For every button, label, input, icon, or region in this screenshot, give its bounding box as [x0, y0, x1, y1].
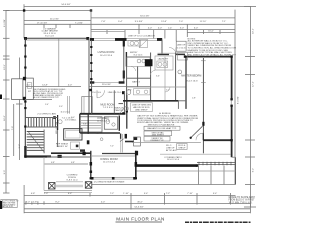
svg-text:ENTRY: ENTRY	[130, 52, 138, 54]
garage top wall post left	[24, 37, 27, 40]
powder room box	[104, 117, 117, 129]
svg-text:5'-4": 5'-4"	[144, 193, 149, 195]
pantry divider	[113, 90, 115, 113]
hall door arc	[165, 87, 170, 92]
left exterior wall upper	[24, 38, 26, 80]
svg-text:45'-0": 45'-0"	[137, 201, 143, 203]
bath3 vanity	[134, 89, 151, 95]
bath2-bath3 divider wall	[137, 67, 139, 87]
master bedroom label	[181, 75, 201, 83]
svg-text:3'-0": 3'-0"	[59, 106, 63, 108]
garage interior dim line	[26, 84, 151, 86]
rear wall (great room back)	[136, 164, 197, 167]
living room left wall	[90, 40, 92, 84]
entry roof line	[91, 31, 125, 33]
hall wall right vertical	[185, 57, 187, 109]
svg-text:5'-4": 5'-4"	[118, 21, 123, 23]
rod and shelf note box	[177, 144, 187, 150]
stairs lower run horizontal treads	[27, 132, 44, 151]
svg-text:3/A5 SHEET: 3/A5 SHEET	[152, 133, 165, 136]
garage label	[41, 27, 57, 37]
pantry left wall	[79, 114, 81, 133]
left wall heavy segment (fireplace wall)	[24, 146, 26, 157]
hall line under notes	[132, 142, 201, 144]
svg-text:2'-8": 2'-8"	[33, 201, 38, 203]
svg-text:2'-0": 2'-0"	[71, 117, 75, 119]
svg-text:LINE OF 10'-0 CLG ABOVE: LINE OF 10'-0 CLG ABOVE	[128, 35, 156, 38]
top dimension line overall	[24, 4, 251, 38]
copyright smudge line	[185, 221, 251, 223]
bath3 bottom wall heavy	[123, 100, 178, 102]
kitchen cabinet wall	[126, 95, 128, 129]
svg-text:4'-8": 4'-8"	[31, 193, 36, 195]
svg-text:8'-0 CLG: 8'-0 CLG	[45, 36, 54, 38]
svg-text:2'-6 OPEN TO ABV: 2'-6 OPEN TO ABV	[37, 113, 56, 116]
bath3 bottom wall light continuation	[178, 100, 186, 102]
svg-text:9'-2": 9'-2"	[253, 168, 255, 173]
svg-text:7'-0": 7'-0"	[179, 21, 184, 23]
kitchen label	[97, 117, 110, 123]
svg-text:VERIFY SZ: VERIFY SZ	[56, 146, 68, 148]
svg-text:7'-9": 7'-9"	[12, 126, 14, 131]
shelves note box	[131, 103, 153, 112]
pantry bottom wall	[80, 132, 120, 134]
top wall master-hall	[158, 48, 186, 55]
laundry room box	[155, 56, 173, 70]
patio top edge with hatches	[197, 162, 236, 165]
svg-text:7'-10": 7'-10"	[187, 193, 193, 195]
patio bottom edge	[92, 184, 236, 186]
fireplace bump-out left	[12, 77, 34, 100]
right dimension line inner	[234, 10, 236, 185]
toilet circle small	[100, 138, 103, 141]
right dimension line outer	[244, 6, 256, 207]
bath2 tub	[126, 67, 128, 96]
entry closet box	[139, 40, 147, 48]
svg-text:LINE OF: LINE OF	[177, 45, 186, 47]
center notes block	[137, 112, 199, 126]
boxed label 3 below notes	[144, 136, 170, 141]
master west wall	[201, 58, 206, 153]
svg-text:PANTRY: PANTRY	[115, 109, 124, 112]
svg-text:BATH 3: BATH 3	[132, 81, 140, 84]
title underline	[116, 221, 163, 223]
svg-text:19'-1": 19'-1"	[253, 28, 255, 34]
stair right wall	[57, 115, 59, 130]
hall line	[127, 78, 186, 87]
powder right wall	[118, 116, 120, 131]
svg-text:24'-0 3/4": 24'-0 3/4"	[50, 18, 59, 20]
pantry room box with shelves	[80, 117, 102, 132]
nook right wall	[135, 151, 137, 179]
top dim small labels row	[148, 28, 199, 30]
living room bottom line	[90, 81, 124, 83]
master top wall	[185, 56, 232, 58]
svg-text:54'-6 3/4": 54'-6 3/4"	[61, 4, 70, 6]
svg-text:6'-4": 6'-4"	[68, 193, 73, 195]
porch back wall line	[47, 156, 91, 158]
covered porch label	[66, 175, 78, 182]
left rotated dim labels	[4, 19, 6, 174]
dining room label	[100, 158, 117, 164]
svg-text:4'-0": 4'-0"	[26, 85, 31, 87]
door swing diagonal	[190, 126, 203, 139]
patio line under master	[160, 153, 231, 155]
svg-text:LAUNDRY: LAUNDRY	[158, 58, 169, 61]
bath2 left wall	[125, 52, 127, 67]
mud room bottom wall	[80, 113, 126, 115]
kitchen counter verticals	[121, 134, 123, 153]
left exterior wall lower	[24, 99, 26, 157]
svg-text:13'-8": 13'-8"	[161, 21, 167, 23]
top dimension line second level	[6, 10, 91, 12]
nook left wall	[90, 151, 92, 179]
stairs	[28, 118, 55, 128]
bottom dim tick verticals	[90, 193, 250, 213]
stair arrow	[29, 132, 44, 152]
porch left edge	[43, 157, 45, 191]
svg-text:8'-0 CLG: 8'-0 CLG	[134, 55, 143, 57]
svg-text:LIVING ROOM: LIVING ROOM	[98, 51, 115, 54]
nook bottom wall with windows	[91, 177, 136, 180]
svg-text:5'-0 CLG: 5'-0 CLG	[177, 47, 186, 49]
laundry door arc	[151, 71, 156, 76]
window marks on left wall	[24, 45, 26, 80]
svg-text:SHELF: SHELF	[178, 147, 186, 149]
living room right wall	[123, 40, 125, 82]
svg-text:16'-0 X 10'-0: 16'-0 X 10'-0	[167, 159, 180, 161]
left inner dim lines	[3, 58, 23, 161]
kitchen corner post	[125, 134, 127, 139]
pantry label	[114, 107, 123, 113]
svg-text:9'-0 3/4": 9'-0 3/4"	[135, 21, 143, 23]
mud door arc	[97, 90, 105, 98]
svg-text:11'-0 X 14'-0: 11'-0 X 14'-0	[103, 161, 116, 163]
right rotated dim labels	[238, 28, 255, 172]
wic note lines	[166, 145, 178, 152]
bottom dim line row B	[24, 201, 250, 203]
svg-text:9'-1 3/4": 9'-1 3/4"	[4, 19, 6, 27]
scattered small dim labels	[45, 75, 196, 147]
bath2 right wall	[150, 53, 152, 101]
svg-text:AND SHELF: AND SHELF	[135, 108, 148, 111]
svg-text:6'-8 X 12'-0: 6'-8 X 12'-0	[66, 179, 78, 181]
stair lower rail	[43, 130, 45, 154]
svg-text:11'-10": 11'-10"	[200, 21, 207, 23]
svg-text:1'-10": 1'-10"	[123, 193, 129, 195]
svg-text:54'-6 3/4": 54'-6 3/4"	[134, 207, 143, 209]
bottom-left note box	[1, 200, 19, 209]
svg-text:11'-8 x 6'-0: 11'-8 x 6'-0	[60, 111, 69, 113]
svg-text:OWNER TYP.: OWNER TYP.	[150, 140, 164, 142]
mud closet box	[82, 97, 92, 114]
fridge blob	[134, 137, 141, 146]
svg-text:AND SHEET A-6 FOR DETAILS. ALL: AND SHEET A-6 FOR DETAILS. ALL HDWR TYP.	[188, 53, 237, 56]
svg-text:3'-6": 3'-6"	[156, 75, 160, 77]
patio column lines	[199, 166, 225, 185]
svg-text:7'-2 X 6'-0: 7'-2 X 6'-0	[103, 107, 114, 109]
stair rails	[25, 118, 57, 128]
hall wall top of bath	[127, 56, 150, 58]
overhang line	[136, 170, 236, 172]
svg-text:2'-0": 2'-0"	[44, 193, 49, 195]
svg-text:9'-0": 9'-0"	[4, 170, 6, 175]
svg-text:13'-5": 13'-5"	[4, 64, 6, 70]
bottom dim line row C	[24, 207, 250, 209]
svg-text:54'-6 3/4": 54'-6 3/4"	[140, 15, 149, 17]
svg-text:8'-0 3/4": 8'-0 3/4"	[238, 96, 240, 104]
garage top wall post right	[86, 37, 89, 40]
mud left wall	[87, 114, 89, 134]
svg-text:13'-0 X 16'-8: 13'-0 X 16'-8	[185, 81, 198, 83]
svg-text:9'-8": 9'-8"	[83, 123, 87, 125]
porch post right	[85, 182, 92, 189]
svg-text:4'-0": 4'-0"	[68, 85, 73, 87]
ref appliance box	[71, 142, 80, 149]
svg-text:9'-0 CLG: 9'-0 CLG	[92, 92, 101, 94]
dining top opening line	[92, 155, 135, 157]
svg-text:7'-1": 7'-1"	[222, 21, 227, 23]
svg-text:2'-8": 2'-8"	[192, 97, 196, 99]
svg-text:4'-6": 4'-6"	[128, 89, 132, 91]
svg-text:7'-2": 7'-2"	[166, 193, 171, 195]
svg-text:11'-8 X 13'-4: 11'-8 X 13'-4	[97, 120, 110, 122]
top dimension line row 4	[24, 23, 235, 25]
kitchen door diagonal	[120, 139, 124, 142]
svg-text:16R @ 7 3/4: 16R @ 7 3/4	[56, 121, 58, 134]
svg-text:5'-4": 5'-4"	[213, 193, 218, 195]
front wall living room with posts	[90, 38, 162, 41]
svg-text:DINING ROOM: DINING ROOM	[100, 158, 117, 161]
boxed label 2 below notes	[144, 131, 172, 136]
right wall window	[230, 98, 232, 107]
boxed label 1 below notes	[144, 126, 180, 130]
svg-text:16'-0": 16'-0"	[208, 31, 214, 33]
bath3 toilet	[127, 89, 131, 94]
svg-text:FROM BLDG 6" IN FIRST: FROM BLDG 6" IN FIRST	[229, 200, 256, 202]
corner square marker left	[23, 9, 25, 11]
wc room	[119, 104, 129, 114]
dim line 16-0 above notes	[187, 31, 235, 33]
svg-text:1'-6": 1'-6"	[96, 133, 100, 135]
bottom dim line row A	[24, 193, 235, 195]
kitchen island	[64, 129, 82, 140]
svg-text:7'-2": 7'-2"	[110, 193, 115, 195]
junction squares	[24, 55, 233, 179]
left wall lower window marks	[24, 101, 26, 128]
kitchen counter bar	[102, 153, 135, 155]
svg-text:5'-4": 5'-4"	[45, 104, 49, 106]
niche circle	[178, 70, 182, 74]
garage right wall	[88, 38, 90, 114]
svg-text:GRADE TO SLOPE AWAY: GRADE TO SLOPE AWAY	[229, 196, 256, 199]
master door arc	[196, 133, 203, 140]
washer dryer circles	[157, 61, 168, 67]
bottom dim left end vertical	[23, 185, 25, 213]
hall divider	[164, 57, 166, 101]
top dimension line garage level	[24, 18, 91, 20]
top dimension line right wing	[91, 15, 235, 18]
left margin black bar upper	[0, 95, 2, 100]
corner post kitchen	[87, 140, 90, 144]
svg-text:5'-2": 5'-2"	[19, 144, 21, 149]
svg-text:4'-0": 4'-0"	[101, 201, 106, 203]
fan circle	[58, 120, 62, 124]
wic box	[175, 53, 177, 102]
left margin black bar lower	[0, 201, 2, 209]
garage divider wall	[58, 39, 60, 87]
svg-text:7'-8": 7'-8"	[101, 21, 106, 23]
svg-text:16'-0": 16'-0"	[4, 115, 6, 121]
svg-text:ALL W/ OWNER PRIOR TYP.: ALL W/ OWNER PRIOR TYP.	[34, 96, 60, 99]
master closet wall	[202, 133, 204, 140]
front wall left portion	[25, 155, 52, 157]
patio right edge	[232, 157, 236, 184]
bath2 label	[127, 57, 150, 67]
bottom dim small ticks	[26, 201, 44, 204]
svg-text:14'-8": 14'-8"	[42, 85, 48, 87]
top dimension ticks	[44, 9, 220, 41]
bath2 door arc	[131, 67, 136, 72]
great room label	[98, 51, 115, 57]
top dimension line row 5	[91, 29, 235, 31]
island inner	[66, 131, 81, 139]
garage top wall	[25, 38, 90, 40]
svg-text:7'-0": 7'-0"	[110, 145, 114, 147]
5-0 clg note box	[176, 41, 186, 51]
corner square marker right	[90, 9, 92, 11]
svg-text:NATIVE SOIL: NATIVE SOIL	[2, 205, 14, 208]
svg-text:MAIN FLOOR PLAN: MAIN FLOOR PLAN	[116, 216, 165, 221]
svg-text:2'-0": 2'-0"	[26, 201, 31, 203]
bath2 sinks	[128, 41, 141, 47]
wall chunk left of fridge	[125, 141, 134, 143]
svg-text:16'-4 X 19'-6: 16'-4 X 19'-6	[100, 55, 113, 57]
top dim labels row right	[101, 21, 226, 23]
svg-text:17'-2": 17'-2"	[253, 81, 255, 87]
svg-text:29'-0 3/4": 29'-0 3/4"	[102, 84, 111, 86]
mud hall lines	[68, 96, 70, 114]
top dim labels garage row	[37, 22, 83, 24]
porch dim line	[45, 162, 89, 164]
interior wall garage-mud	[91, 82, 93, 113]
counter dark corner	[80, 149, 85, 151]
svg-text:6'-8": 6'-8"	[71, 162, 75, 164]
master bottom wall	[203, 139, 231, 141]
porch edge lines	[44, 182, 92, 193]
porch corner post dark	[58, 155, 62, 158]
bottom dim line row D	[24, 212, 250, 214]
notes block top right	[188, 38, 237, 56]
front wall dining segment	[51, 152, 91, 154]
jog wall down to master wing	[161, 40, 163, 55]
left dimension line	[3, 10, 10, 193]
right exterior wall	[231, 57, 233, 158]
svg-text:KITCHEN: KITCHEN	[98, 117, 109, 120]
mud room label	[100, 103, 114, 108]
shop label	[34, 88, 66, 99]
svg-text:RADIANT FLOOR HEAT TYP.: RADIANT FLOOR HEAT TYP.	[147, 127, 176, 130]
solid black shower	[145, 59, 153, 66]
ref space note	[56, 143, 69, 148]
grade note bottom right	[229, 196, 256, 205]
svg-text:8'-2": 8'-2"	[55, 201, 60, 203]
svg-text:ATTIC ACC: ATTIC ACC	[166, 149, 178, 152]
porch post left	[49, 183, 56, 190]
svg-text:6'-8": 6'-8"	[51, 162, 55, 164]
svg-text:MASTER BEDRM: MASTER BEDRM	[181, 75, 201, 78]
garage hall stub wall	[25, 98, 52, 100]
svg-text:12'-0 WINDOW SEAT W/ STORAGE: 12'-0 WINDOW SEAT W/ STORAGE	[94, 180, 126, 183]
